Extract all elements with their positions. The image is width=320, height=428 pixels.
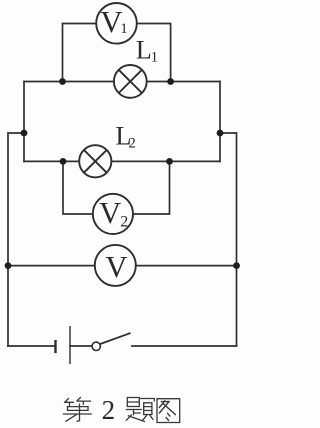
- svg-text:V: V: [100, 5, 122, 39]
- svg-text:1: 1: [151, 49, 159, 65]
- svg-text:2: 2: [128, 135, 136, 151]
- svg-text:2: 2: [102, 395, 116, 425]
- svg-text:V: V: [99, 196, 121, 230]
- svg-text:V: V: [105, 250, 127, 284]
- svg-text:1: 1: [120, 21, 128, 37]
- svg-text:2: 2: [120, 213, 128, 230]
- svg-text:L: L: [136, 36, 152, 65]
